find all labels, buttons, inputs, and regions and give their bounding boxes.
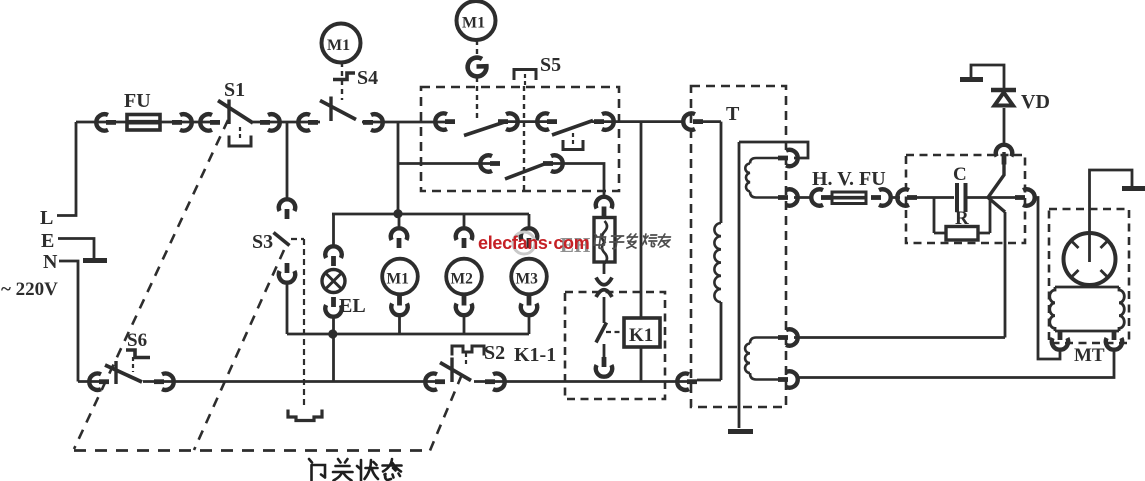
svg-text:N: N [43,251,58,273]
svg-text:M1: M1 [327,37,350,54]
connector filament winding top terminal [778,329,798,345]
mechanical link S3 to door bracket [291,239,304,407]
mechanical link M1 to S4 [341,62,343,100]
wire: M3 branch lower [528,315,531,335]
svg-text:S3: S3 [252,231,273,253]
svg-text:S4: S4 [357,67,378,89]
wire: M2 branch upper [463,214,466,230]
connector under filament right [1106,330,1122,350]
connector under filament left [1052,330,1068,350]
svg-text:R: R [955,208,969,229]
connector timer row1 right [594,113,614,129]
svg-text:K1-1: K1-1 [514,344,556,366]
door hook symbol inside timer box [563,133,583,150]
wire: M2 branch lower [463,315,466,335]
mechanical link contact to K1 coil [606,331,624,333]
connector right of fuse FU [172,114,192,130]
connector below switch S3 [279,263,295,283]
wire: below heater [603,262,606,274]
fuse FU [124,90,160,130]
wire: bottom rail segment B [143,380,442,383]
wire: bottom rail segment C [474,380,688,383]
label door-state text [309,459,402,481]
ground: earth bar at E [83,258,107,263]
motor M1 (top stirrer) [322,24,361,63]
fan motor symbol [468,58,487,77]
connector left of H.V.FU [811,189,831,205]
switch S1 (door interlock) [218,79,253,124]
connector right of switch S6 [154,374,174,390]
transformer filament winding [750,338,778,380]
wire: top bus segment A (through fuse FU) [76,121,212,124]
connector above motor M1 [391,228,407,248]
wire: filament winding top lead across [794,212,1005,338]
wire: Y junction from diode to node [988,152,1005,212]
svg-text:S5: S5 [540,54,561,76]
wire: top bus segment D [500,120,554,123]
heater branch: connector above EH [596,197,612,217]
wire: S3 lower branch to motor rail [286,282,289,334]
motor M1 (top fan) [457,1,496,40]
wire: bus branch down to relay coil K1 [640,122,643,318]
junction dot on motor rail [393,209,402,218]
connector timer row1 mid right [498,113,518,129]
transformer core/ground line [738,142,741,428]
C R dashed box [906,155,1025,243]
wire: HV node to filament left terminal [1033,198,1060,360]
svg-text:M1: M1 [387,271,409,288]
door hook symbol at S4 [333,73,355,80]
svg-text:C: C [953,164,967,185]
wire: L lead up to top bus corner [57,122,76,216]
connector HV secondary bottom terminal [778,189,798,205]
timer contact row2 blade [505,163,547,179]
svg-text:FU: FU [124,90,151,112]
timer dashed box S5 [421,87,619,191]
wire: R parallel branch [934,198,990,234]
svg-text:S2: S2 [484,342,505,364]
connector left of switch S6 [89,374,109,390]
transformer HV secondary winding [750,158,778,198]
connector HV secondary top terminal [778,150,798,166]
wire: top bus segment E to transformer [592,120,683,123]
connector below motor M1 [391,296,407,316]
magnetron tube circle [1064,233,1116,285]
door frame dashed diagonal from S1 [74,120,228,449]
door hook symbol S5 [514,70,536,87]
svg-text:VD: VD [1021,91,1050,113]
fuse H.V.FU [812,168,886,204]
connector right of S4 [363,114,383,130]
svg-text:M1: M1 [462,15,485,32]
diode VD [991,90,1050,113]
connector below relay contact [596,357,612,377]
connector timer row1 mid left [537,113,557,129]
wire: M3 branch upper [528,214,531,230]
connector bottom rail into T [677,374,697,390]
wire: relay contact upper lead [603,297,606,323]
timer contact row1 second blade [552,121,593,136]
transformer primary winding [697,122,721,380]
switch S3 [252,231,290,253]
relay coil K1 box [624,318,660,347]
wire: node to exit connector [988,196,1018,199]
ground bar below T [728,429,753,434]
wire: filament right terminal to transformer [797,350,1114,378]
connector top bus into T [683,113,703,129]
wire: EL branch lower to rails [332,316,335,382]
svg-text:H. V. FU: H. V. FU [812,168,886,190]
motor M2 [446,259,482,295]
svg-text:M2: M2 [451,271,474,288]
connector at S3 branch [298,114,318,130]
wire: M1 branch lower [398,315,401,335]
junction dot motor bottom rail [328,329,337,338]
ground bar top right [1122,186,1145,191]
switch S4 (door interlock) [320,67,378,121]
connector below lamp EL [325,297,341,317]
svg-text:L: L [40,207,53,229]
door frame dashed diagonal from S3 [194,250,284,450]
svg-text:S6: S6 [127,330,147,351]
wire: through capacitor C [912,196,988,199]
wire: filament stubs [1060,331,1114,338]
wire: motor group bottom rail [287,333,529,336]
mechanical link S6 hook [132,357,134,372]
ground bar at VD [960,77,983,82]
motor M3 [511,259,547,295]
resistor R [946,208,978,240]
wire: relay contact lower lead [603,344,606,366]
connector above motor M2 [456,228,472,248]
wire: EL branch upper [332,214,335,247]
connector left of switch S2 [425,374,445,390]
connector below motor M3 [521,296,537,316]
wire: N lead down to bottom rail [59,261,78,382]
door hook symbol below S1 [229,127,251,146]
connector right of H.V.FU [871,189,891,205]
connector into C R box [897,189,917,205]
connector above lamp EL [325,246,341,266]
svg-text:M3: M3 [516,271,539,288]
relay contact blade K1 [596,323,607,343]
wire: top bus segment C [362,121,453,124]
motor M1 (turntable) [382,259,418,295]
svg-text:E: E [41,230,54,252]
relay dashed box [565,292,665,399]
connector right of switch S2 [485,374,505,390]
wire: top bus segment B [253,121,320,124]
door hook bracket bottom center [288,410,322,421]
wire: motor group top rail [332,213,529,216]
heater EH [594,218,615,264]
wire: HV top terminal loop to core [739,142,808,158]
transformer T dashed box [691,86,786,407]
timer contact row1 first blade [464,122,506,136]
switch S6 (door interlock) [105,330,147,384]
connector filament winding bottom terminal [778,371,798,387]
lamp EL [322,270,366,318]
wire: K1 coil to bottom rail [640,347,643,382]
connector timer row1 left [435,113,455,129]
wire: fuse to capacitor box [889,196,900,199]
wire: row2 branch [398,162,497,165]
wire: bottom rail segment A [78,380,104,383]
connector timer row2 left [480,155,500,171]
svg-text:S1: S1 [224,79,245,101]
door frame dashed diagonal to S2 [430,372,463,451]
connector out of C R box [1015,189,1035,205]
magnetron filament coil [1055,287,1119,331]
wire: E lead to earth [58,239,94,259]
wire: S3 branch from bus [286,122,289,200]
mechanical link M1 to fan symbol [476,40,478,57]
connector below motor M2 [456,296,472,316]
connector above switch S3 [279,199,295,219]
watermark ring [513,232,535,254]
connector left of switch S1 [200,114,220,130]
connector pair (plug) between EH and relay contact [596,278,612,298]
svg-text:K1: K1 [629,325,653,346]
wire: M1 branch upper [398,214,401,230]
wire: timer row2 output to heater branch [546,164,604,197]
mechanical link S5 through timer box [523,86,525,190]
connector timer row2 right [543,155,563,171]
svg-text:T: T [726,103,740,125]
capacitor C [953,164,967,212]
mechanical link fan to timer contact [476,77,478,120]
svg-text:MT: MT [1074,345,1105,366]
door frame dashed bottom line [74,449,430,452]
wire: to HV fuse [794,196,812,199]
svg-text:elecfans·com: elecfans·com [478,233,589,253]
connector left of fuse FU [96,114,116,130]
door hook symbol at S6 [126,350,150,358]
svg-text:~ 220V: ~ 220V [1,279,58,300]
connector below diode VD [996,145,1012,165]
wire: branch down to motor group rail [397,122,400,214]
magnetron MT dashed box [1049,209,1129,343]
switch S2 (door interlock, K1-1) [440,342,556,382]
connector right of switch S1 [260,114,280,130]
wire: diode VD leads [971,65,1004,144]
watermark chinese characters [593,234,671,249]
wire: magnetron anode to ground [1090,170,1133,262]
connector above motor M3 [521,228,537,248]
door hook symbol at S2 [452,346,484,366]
